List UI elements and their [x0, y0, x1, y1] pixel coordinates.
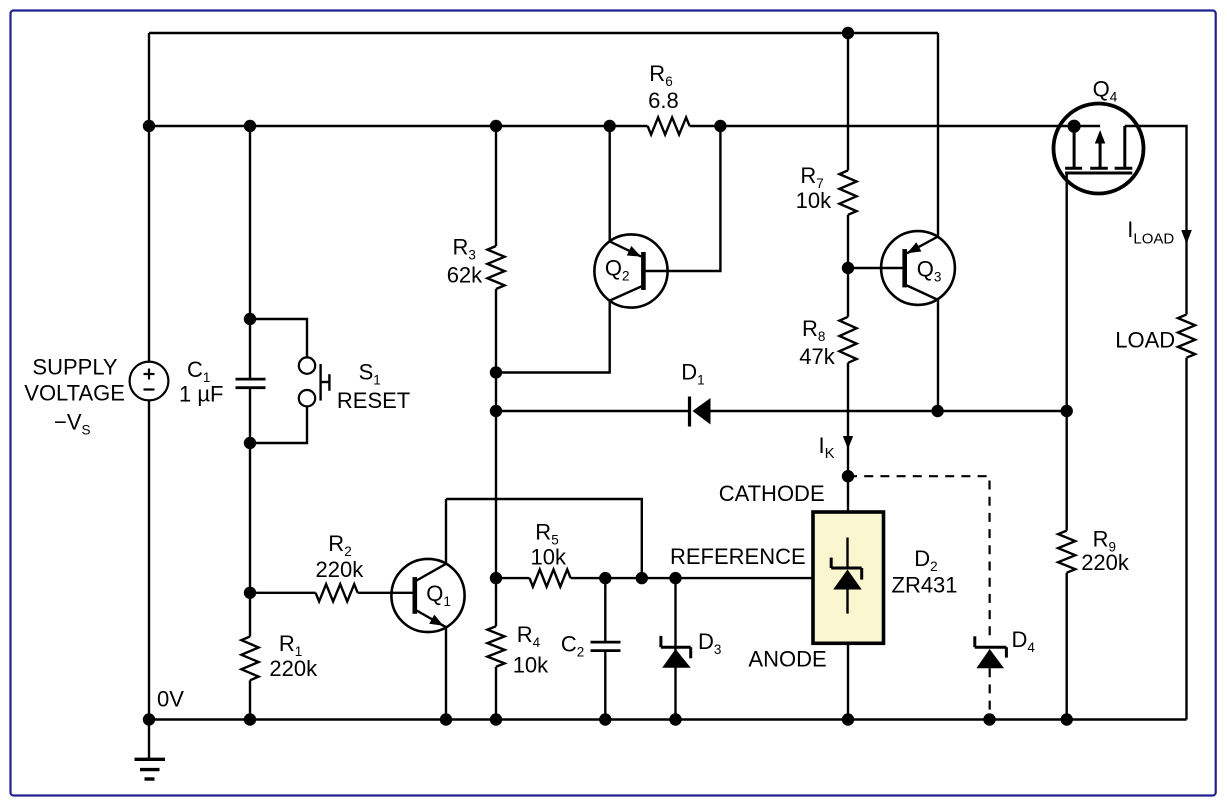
- wire D3 vertical: [674, 578, 676, 719]
- diode D3 triangle: [662, 649, 691, 668]
- node rail2-left: [143, 120, 155, 132]
- wire left vertical upper: [148, 33, 150, 362]
- transistor Q2 emitter arrow: [627, 246, 641, 257]
- node R1 bottom: [244, 713, 256, 725]
- node D4 bottom: [983, 713, 995, 725]
- node C1-S1 bottom: [244, 437, 256, 449]
- supply minus sign: [144, 388, 155, 390]
- resistor R3: [487, 246, 504, 289]
- node rail2-Q2e: [604, 120, 616, 132]
- wire C1 top: [249, 126, 251, 379]
- arrow Ik: [843, 436, 853, 449]
- node R4 bottom: [490, 713, 502, 725]
- wire bottom rail: [149, 718, 1187, 720]
- transistor Q4 middle leg: [1099, 142, 1102, 168]
- voltage source VS circle: [130, 362, 169, 401]
- svg-text:REFERENCE: REFERENCE: [670, 544, 806, 569]
- wire R5 left: [496, 577, 530, 579]
- transistor Q1 emitter: [415, 610, 446, 628]
- D2 internal anode line: [846, 590, 848, 614]
- switch S1 contact top: [299, 357, 315, 373]
- wire R3-R4 middle: [495, 289, 497, 626]
- transistor Q3 emitter: [907, 237, 938, 254]
- node rail2-R3: [490, 120, 502, 132]
- transistor Q1 circle: [391, 559, 464, 632]
- switch S1 actuator: [319, 364, 321, 401]
- wire Q2 collector down: [496, 301, 610, 373]
- node Q1 emitter bottom: [440, 713, 452, 725]
- wire R4 bottom: [495, 667, 497, 720]
- transistor Q3 emitter arrow: [907, 242, 921, 253]
- wire C2 bottom: [604, 651, 606, 720]
- wire R2 right: [358, 592, 413, 594]
- node C2 bottom: [599, 713, 611, 725]
- capacitor C1: [236, 378, 266, 381]
- wire C2 top: [604, 578, 606, 642]
- transistor Q4 left leg: [1073, 126, 1076, 168]
- arrow Iload: [1181, 230, 1192, 244]
- wire D1 left: [496, 410, 690, 412]
- wire Q1 collector loop: [446, 499, 642, 578]
- wire R1 bottom: [249, 680, 251, 719]
- IC D2 box: [813, 512, 884, 643]
- svg-text:ANODE: ANODE: [748, 647, 826, 672]
- diode D4 zener bar: [973, 636, 976, 647]
- wire dashed D4 bottom: [989, 668, 991, 719]
- transistor Q2 circle: [594, 234, 667, 307]
- wire D2 cathode lead: [847, 476, 849, 512]
- node cathode junction: [842, 470, 854, 482]
- svg-text:220k: 220k: [269, 656, 318, 681]
- node R9 bottom: [1061, 713, 1073, 725]
- wire Q4 drain out: [1125, 126, 1187, 315]
- diode D3 zener bar: [659, 636, 662, 647]
- svg-text:CATHODE: CATHODE: [719, 481, 825, 506]
- capacitor C2: [591, 641, 621, 644]
- svg-text:220k: 220k: [1081, 550, 1130, 575]
- transistor Q2 emitter: [610, 241, 642, 256]
- wire Q4 source down: [1065, 173, 1067, 411]
- node Q4 gate dot: [1068, 120, 1081, 133]
- D2 internal cathode line: [846, 538, 848, 569]
- wire R7-R8: [847, 215, 849, 317]
- D2 internal zener bar: [830, 558, 833, 568]
- supply plus sign: [148, 369, 150, 380]
- transistor Q1 emitter arrow: [429, 615, 443, 626]
- wire D1 right: [711, 410, 1067, 412]
- svg-text:RESET: RESET: [337, 388, 410, 413]
- node D3 top: [669, 572, 681, 584]
- wire S1 bottom link: [250, 406, 307, 443]
- resistor R1: [241, 637, 258, 681]
- wire S1 top link: [250, 319, 307, 357]
- transistor Q2 base bar: [641, 252, 646, 290]
- svg-text:ZR431: ZR431: [892, 572, 958, 597]
- node R5 left: [490, 572, 502, 584]
- svg-text:6.8: 6.8: [648, 88, 679, 113]
- wire second rail right: [690, 125, 1101, 127]
- svg-text:62k: 62k: [447, 263, 483, 288]
- transistor Q4 circle: [1054, 104, 1144, 194]
- svg-text:10k: 10k: [796, 188, 832, 213]
- wire reference line: [571, 577, 813, 579]
- transistor Q4 channel bar: [1065, 172, 1132, 175]
- D2 internal triangle: [833, 570, 862, 590]
- wire Q3 collector down: [937, 300, 939, 411]
- node R2 junction: [244, 587, 256, 599]
- wire D2 anode lead: [847, 643, 849, 719]
- resistor R9: [1058, 531, 1075, 573]
- svg-text:LOAD: LOAD: [1115, 328, 1175, 353]
- node D3 bottom: [669, 713, 681, 725]
- wire second rail left: [149, 125, 648, 127]
- transistor Q1 collector: [415, 499, 446, 582]
- wire Q1 emitter down: [445, 627, 447, 719]
- node R7-R8-Q3 junction: [842, 262, 854, 274]
- transistor Q3 collector: [905, 285, 938, 300]
- node ref corner: [636, 572, 648, 584]
- svg-text:0V: 0V: [157, 687, 184, 712]
- wire Q3 collector top: [937, 33, 939, 237]
- node R3-Q2 junction: [490, 366, 502, 378]
- node top-rail junction: [842, 27, 854, 39]
- transistor Q3 circle: [881, 231, 955, 305]
- wire top rail: [149, 32, 938, 34]
- node 0V-left: [143, 713, 155, 725]
- svg-text:220k: 220k: [316, 557, 365, 582]
- node C2 top: [599, 572, 611, 584]
- svg-text:SUPPLY: SUPPLY: [32, 355, 118, 380]
- ground: [148, 720, 150, 760]
- transistor Q3 base bar: [902, 249, 907, 287]
- resistor R6: [648, 117, 690, 134]
- svg-text:VOLTAGE: VOLTAGE: [24, 381, 125, 406]
- wire R9 top: [1065, 411, 1067, 531]
- resistor LOAD: [1178, 315, 1195, 358]
- resistor R7: [839, 170, 856, 214]
- node R3-D1 junction: [490, 405, 502, 417]
- svg-text:1 µF: 1 µF: [179, 381, 223, 406]
- wire R3 top: [495, 126, 497, 246]
- svg-text:10k: 10k: [513, 653, 549, 678]
- switch S1 contact bottom: [299, 390, 315, 406]
- wire R7 top: [847, 33, 849, 170]
- svg-text:10k: 10k: [531, 544, 567, 569]
- transistor Q4 middle arrow: [1095, 130, 1106, 144]
- wire R9 bottom: [1065, 573, 1067, 720]
- node D1-Q4 junction: [1061, 405, 1073, 417]
- resistor R5: [530, 570, 571, 587]
- svg-text:47k: 47k: [799, 344, 835, 369]
- transistor Q2 collector: [610, 286, 644, 301]
- node rail2-Q2b: [714, 120, 726, 132]
- wire left vertical lower: [148, 400, 150, 719]
- diode D4 triangle: [976, 649, 1004, 668]
- diode D1: [688, 397, 691, 427]
- wire dashed cathode-D4: [848, 476, 990, 636]
- wire load bottom: [1185, 358, 1187, 720]
- wire R8 down: [847, 363, 849, 476]
- node rail2-C1: [244, 120, 256, 132]
- transistor Q1 base bar: [412, 577, 417, 614]
- wire R2 left: [250, 592, 316, 594]
- resistor R2: [316, 584, 358, 601]
- wire Q2 emitter feed: [609, 126, 611, 241]
- wire C1 bottom: [249, 388, 251, 637]
- transistor Q4 right leg: [1123, 126, 1126, 168]
- resistor R8: [839, 317, 856, 363]
- wire Q3 base link: [848, 267, 905, 269]
- node D2 anode bottom: [842, 713, 854, 725]
- resistor R4: [487, 626, 504, 667]
- node C1-S1 top: [244, 313, 256, 325]
- wire Q2 base link: [643, 126, 720, 271]
- node D1-Q3 junction: [931, 405, 943, 417]
